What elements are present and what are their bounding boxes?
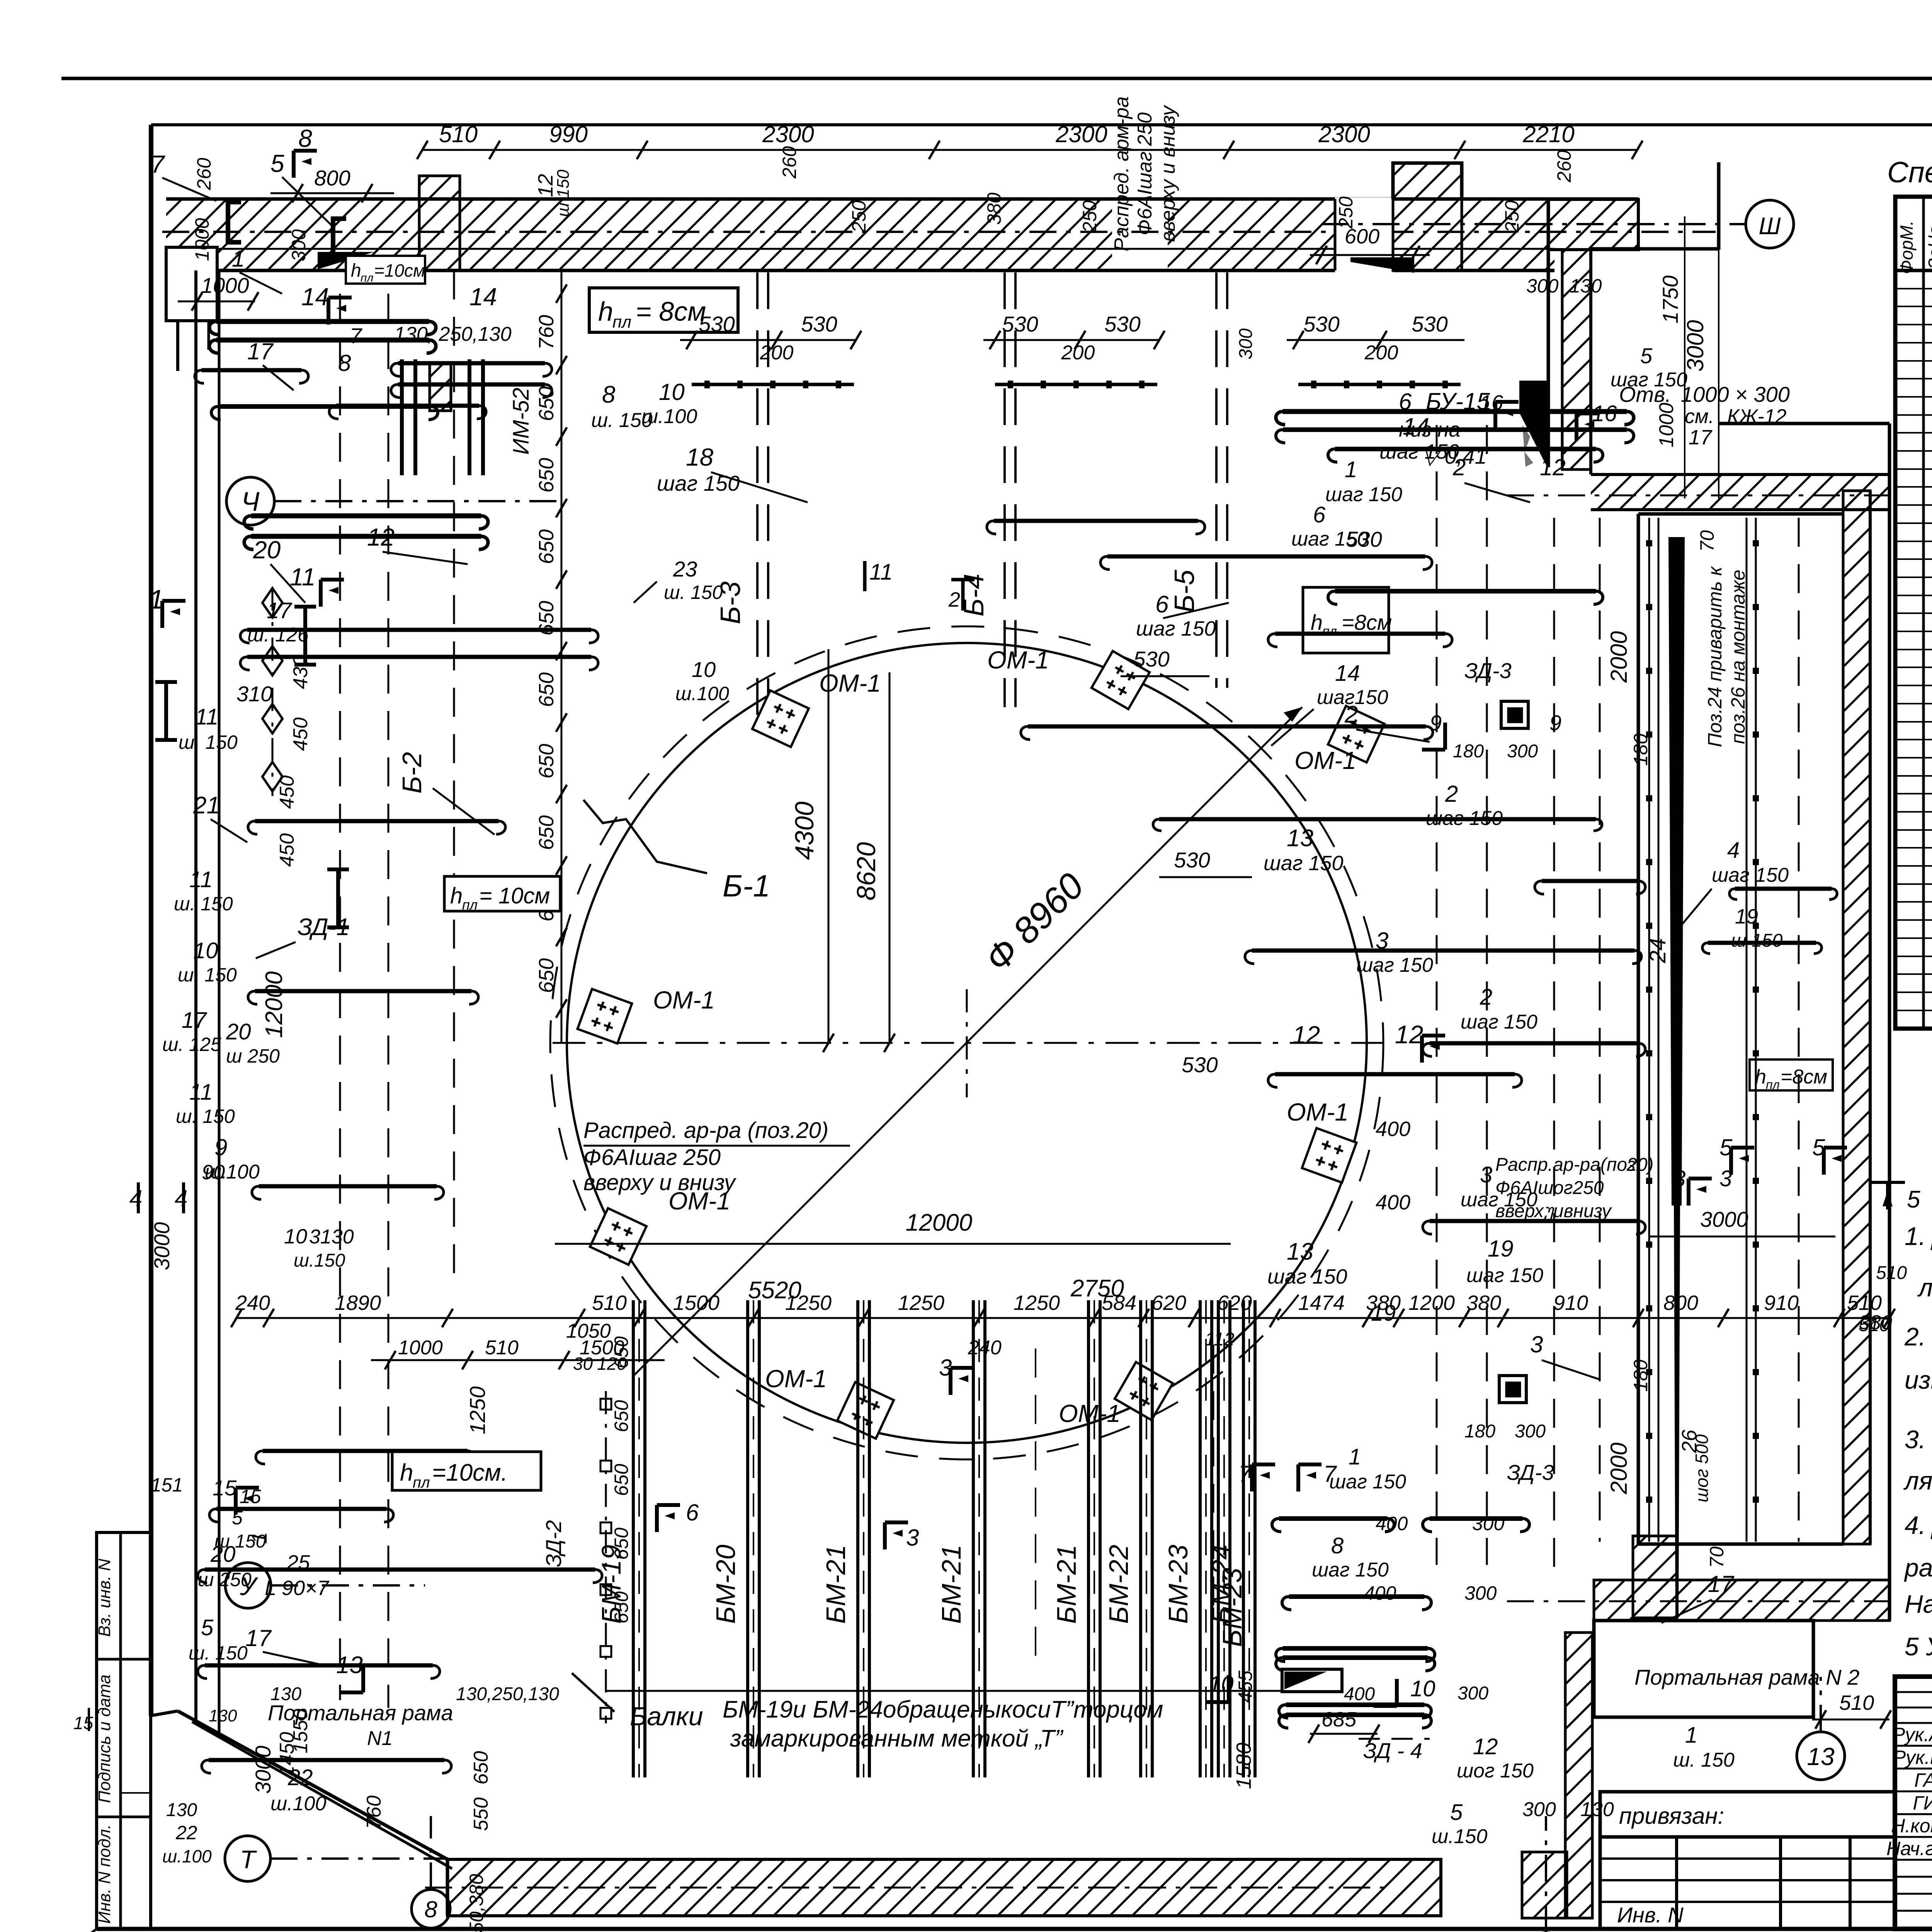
svg-text:1250: 1250 bbox=[1014, 1291, 1060, 1315]
svg-text:пл.: пл. bbox=[1322, 624, 1340, 639]
svg-text:ГАП: ГАП bbox=[1914, 1769, 1932, 1791]
svg-text:1000: 1000 bbox=[398, 1337, 443, 1359]
right zone outer thick lines bbox=[1638, 512, 1843, 516]
left wall lines bbox=[194, 270, 197, 1720]
svg-text:5: 5 bbox=[270, 150, 284, 177]
svg-text:1000: 1000 bbox=[1655, 403, 1678, 447]
svg-text:200: 200 bbox=[1061, 342, 1095, 364]
svg-text:650: 650 bbox=[535, 815, 558, 850]
svg-text:ИМ-52: ИМ-52 bbox=[509, 388, 534, 455]
svg-text:Распр.ар-ра(поз.: Распр.ар-ра(поз. bbox=[1495, 1155, 1641, 1175]
svg-text:760: 760 bbox=[535, 315, 558, 350]
svg-text:2000: 2000 bbox=[1606, 1442, 1632, 1494]
top right hatched block A bbox=[1548, 199, 1638, 250]
svg-text:650: 650 bbox=[611, 1400, 632, 1432]
svg-text:ш. 150: ш. 150 bbox=[178, 964, 237, 986]
svg-text:h: h bbox=[351, 260, 361, 281]
svg-text:650: 650 bbox=[470, 1751, 492, 1785]
svg-text:300: 300 bbox=[1522, 1798, 1556, 1821]
svg-text:1000: 1000 bbox=[191, 218, 213, 261]
svg-text:Ш: Ш bbox=[1759, 213, 1781, 240]
ZD-3 square bottom bbox=[1499, 1376, 1526, 1403]
svg-text:5: 5 bbox=[201, 1615, 214, 1640]
svg-text:300: 300 bbox=[1458, 1683, 1488, 1704]
svg-text:12: 12 bbox=[367, 523, 395, 551]
axis Ч circle bbox=[226, 477, 274, 525]
svg-text:530: 530 bbox=[1133, 647, 1169, 671]
svg-text:Спецификация: Спецификация bbox=[1887, 156, 1932, 189]
OM-1 pad bottom-right bbox=[1115, 1362, 1173, 1420]
svg-text:530: 530 bbox=[1346, 527, 1382, 551]
svg-text:6: 6 bbox=[686, 1500, 699, 1526]
svg-text:12000: 12000 bbox=[906, 1209, 972, 1236]
svg-text:3: 3 bbox=[906, 1525, 919, 1551]
svg-text:лям ЗД-2, расположенным в: лям ЗД-2, расположенным в балке Б-1. bbox=[1903, 1466, 1932, 1495]
svg-text:КЖ-12: КЖ-12 bbox=[1727, 405, 1787, 428]
svg-text:5: 5 bbox=[1640, 344, 1653, 368]
svg-text:10: 10 bbox=[193, 938, 218, 963]
svg-text:1250: 1250 bbox=[898, 1291, 944, 1315]
svg-text:Б-3: Б-3 bbox=[715, 582, 746, 624]
svg-text:17: 17 bbox=[1708, 1571, 1735, 1597]
svg-text:ГИП: ГИП bbox=[1913, 1792, 1932, 1814]
OM-1 pad lower-left bbox=[590, 1208, 646, 1265]
svg-text:300: 300 bbox=[1236, 328, 1256, 359]
svg-text:пл: пл bbox=[413, 1474, 430, 1491]
svg-text:11: 11 bbox=[189, 1080, 213, 1105]
top right hatched column B bbox=[1562, 250, 1591, 469]
OM-1 pad right bbox=[1302, 1128, 1357, 1183]
svg-text:25: 25 bbox=[286, 1551, 310, 1574]
svg-text:шаг 150: шаг 150 bbox=[1136, 617, 1216, 640]
svg-text:8: 8 bbox=[1331, 1533, 1344, 1558]
left inner dashed lines bbox=[339, 294, 341, 1700]
svg-text:13: 13 bbox=[1287, 1238, 1313, 1265]
svg-text:800: 800 bbox=[1663, 1291, 1698, 1315]
svg-text:ОМ-1: ОМ-1 bbox=[653, 986, 715, 1014]
svg-text:ЗоНа: ЗоНа bbox=[1925, 226, 1932, 269]
step block 3605 bbox=[1393, 163, 1462, 270]
hpl=10cm box bottom bbox=[392, 1452, 541, 1490]
svg-text:пл: пл bbox=[361, 272, 374, 284]
svg-text:910: 910 bbox=[1553, 1291, 1588, 1315]
svg-text:10: 10 bbox=[659, 379, 685, 405]
svg-text:180: 180 bbox=[1453, 741, 1484, 762]
svg-text:ш. 150: ш. 150 bbox=[176, 1105, 235, 1127]
svg-text:620: 620 bbox=[1217, 1291, 1252, 1315]
svg-text:9: 9 bbox=[214, 1134, 227, 1160]
bottom hatched strip right part bbox=[1594, 1580, 1889, 1621]
svg-text:70: 70 bbox=[1696, 530, 1718, 552]
I-beam mid bbox=[164, 682, 168, 740]
bottom right portal zone bbox=[1565, 1633, 1592, 1918]
svg-text:4: 4 bbox=[129, 1185, 142, 1211]
svg-text:=8см: =8см bbox=[1342, 610, 1392, 634]
svg-text:БМ-23: БМ-23 bbox=[1163, 1544, 1193, 1624]
black wedge in column bbox=[1519, 381, 1547, 466]
svg-text:5: 5 bbox=[1450, 1800, 1463, 1825]
svg-text:БМ-23: БМ-23 bbox=[1217, 1568, 1247, 1647]
svg-text:Инв. N: Инв. N bbox=[1617, 1903, 1684, 1927]
svg-text:18: 18 bbox=[686, 443, 714, 471]
sheet frame bottom line bbox=[97, 1927, 1932, 1931]
svg-text:17: 17 bbox=[182, 1008, 207, 1033]
black wedge plate right bbox=[1350, 257, 1414, 273]
svg-text:Распред. ар-ра (поз.20): Распред. ар-ра (поз.20) bbox=[583, 1118, 828, 1143]
svg-text:400: 400 bbox=[1344, 1684, 1375, 1704]
top band inner face line bbox=[166, 248, 1335, 250]
svg-text:3000: 3000 bbox=[251, 1746, 275, 1794]
svg-text:1474: 1474 bbox=[1298, 1291, 1345, 1315]
svg-text:685: 685 bbox=[1321, 1708, 1357, 1731]
step block over band at 1085 bbox=[419, 176, 460, 270]
svg-text:530: 530 bbox=[1412, 312, 1447, 336]
svg-text:22: 22 bbox=[175, 1822, 197, 1844]
650 dimension column bbox=[561, 270, 563, 1043]
bottom band hatched bbox=[447, 1859, 1441, 1916]
svg-text:ОМ-1: ОМ-1 bbox=[819, 669, 881, 697]
svg-text:15: 15 bbox=[240, 1486, 261, 1507]
OM-1 pad upper-right bbox=[1328, 706, 1384, 762]
door gap with 600 dim bbox=[1335, 197, 1393, 272]
svg-text:ЗД-3: ЗД-3 bbox=[1507, 1460, 1554, 1485]
circle diagonal diameter bbox=[634, 707, 1302, 1376]
black strip bbox=[1668, 537, 1685, 1206]
svg-text:ш.150: ш.150 bbox=[1432, 1825, 1487, 1848]
svg-text:Вз. инв. N: Вз. инв. N bbox=[95, 1559, 114, 1637]
diamond posts column 21 bbox=[262, 588, 282, 617]
svg-text:12: 12 bbox=[1293, 1021, 1320, 1049]
hpl=10cm box top bbox=[346, 256, 425, 284]
svg-text:ш 150: ш 150 bbox=[214, 1531, 266, 1552]
svg-text:Б-2: Б-2 bbox=[397, 752, 427, 794]
rebar bars top-left bbox=[216, 319, 429, 324]
dashed verticals center-bottom bbox=[1213, 1345, 1214, 1623]
svg-text:2300: 2300 bbox=[1318, 121, 1370, 147]
top-right bars bbox=[1283, 409, 1627, 414]
svg-text:7: 7 bbox=[350, 323, 362, 348]
svg-text:ш.100: ш.100 bbox=[641, 405, 697, 428]
svg-text:ЗД-1: ЗД-1 bbox=[298, 914, 350, 940]
svg-text:БМ-20: БМ-20 bbox=[711, 1544, 741, 1624]
svg-text:Н.контр.: Н.контр. bbox=[1891, 1815, 1932, 1837]
title block outer frame bbox=[1895, 1677, 1932, 1929]
svg-text:17: 17 bbox=[247, 338, 274, 364]
svg-text:15: 15 bbox=[213, 1476, 237, 1500]
OM-1 pad left bbox=[578, 989, 632, 1044]
svg-text:510: 510 bbox=[1839, 1691, 1874, 1714]
spec table row lines fine grid bbox=[1895, 288, 1932, 289]
svg-text:ш 250: ш 250 bbox=[198, 1569, 252, 1590]
svg-text:шаг 150: шаг 150 bbox=[1461, 1011, 1537, 1033]
svg-text:шаг 150: шаг 150 bbox=[1712, 864, 1789, 886]
svg-text:8: 8 bbox=[602, 381, 616, 408]
svg-text:шаг 150: шаг 150 bbox=[1312, 1559, 1389, 1581]
axis Т circle bbox=[225, 1836, 270, 1881]
long bars center-right bbox=[1028, 724, 1426, 729]
svg-text:1000 × 300: 1000 × 300 bbox=[1681, 382, 1790, 406]
svg-text:1250: 1250 bbox=[465, 1386, 490, 1435]
svg-text:3000: 3000 bbox=[1700, 1207, 1748, 1231]
circle vertical centerline short bbox=[966, 989, 968, 1097]
svg-text:ОМ-1: ОМ-1 bbox=[1294, 747, 1356, 774]
svg-text:151: 151 bbox=[151, 1474, 183, 1496]
svg-text:ш. 150: ш. 150 bbox=[1673, 1749, 1735, 1771]
svg-text:Б-5: Б-5 bbox=[1169, 570, 1200, 613]
svg-text:11: 11 bbox=[290, 563, 315, 591]
opening circle solid bbox=[567, 643, 1367, 1443]
left corner white block bbox=[166, 247, 217, 321]
svg-text:8: 8 bbox=[424, 1896, 437, 1922]
svg-text:14: 14 bbox=[301, 283, 329, 311]
svg-text:530: 530 bbox=[1303, 312, 1339, 336]
svg-text:3. Стальные балки приварить: 3. Стальные балки приварить к закладным … bbox=[1905, 1425, 1932, 1454]
bottom center bars bbox=[1279, 1516, 1387, 1521]
top right walls outline bbox=[1547, 199, 1550, 467]
svg-text:990: 990 bbox=[549, 121, 588, 147]
svg-text:10: 10 bbox=[284, 1225, 307, 1248]
svg-text:30: 30 bbox=[573, 1354, 593, 1374]
main bottom dim chain bbox=[236, 1317, 1889, 1319]
thin dim verticals right bbox=[1684, 216, 1685, 498]
svg-text:БМ-21: БМ-21 bbox=[821, 1544, 851, 1624]
bottom-left diagonal edge bbox=[151, 1711, 178, 1716]
svg-text:Ф6АIшаг 250: Ф6АIшаг 250 bbox=[583, 1145, 721, 1170]
svg-text:2: 2 bbox=[1445, 781, 1458, 807]
svg-text:шог 500: шог 500 bbox=[1692, 1434, 1712, 1502]
svg-text:листами КЖ-23 ÷ КЖ-28: листами КЖ-23 ÷ КЖ-28 bbox=[1917, 1273, 1932, 1302]
black wedge plate left bbox=[318, 252, 374, 269]
svg-text:100: 100 bbox=[226, 1161, 260, 1183]
bottom band of plan bbox=[446, 1859, 449, 1915]
svg-text:шаг 150: шаг 150 bbox=[1466, 1264, 1543, 1287]
svg-text:ОМ-1: ОМ-1 bbox=[765, 1365, 827, 1393]
svg-text:Б-1: Б-1 bbox=[723, 869, 770, 903]
svg-text:ш.150: ш.150 bbox=[294, 1250, 345, 1271]
svg-text:260: 260 bbox=[193, 158, 215, 190]
svg-text:7: 7 bbox=[151, 150, 165, 178]
svg-text:ш. 150: ш. 150 bbox=[179, 731, 238, 753]
svg-text:= 10см: = 10см bbox=[479, 883, 550, 908]
svg-text:450: 450 bbox=[276, 776, 298, 809]
svg-text:3: 3 bbox=[1719, 1166, 1732, 1191]
svg-text:650: 650 bbox=[611, 1464, 632, 1496]
axis 13 circle bbox=[1797, 1732, 1845, 1780]
svg-text:1500: 1500 bbox=[673, 1291, 719, 1315]
svg-text:510: 510 bbox=[485, 1337, 519, 1359]
svg-text:пл: пл bbox=[1766, 1078, 1780, 1092]
svg-text:130: 130 bbox=[270, 1684, 301, 1704]
svg-text:шаг 150: шаг 150 bbox=[1611, 369, 1687, 391]
svg-text:650: 650 bbox=[611, 1336, 632, 1369]
svg-text:1200: 1200 bbox=[1408, 1291, 1455, 1315]
small hatch pier bbox=[430, 362, 451, 411]
svg-text:ш 250: ш 250 bbox=[226, 1045, 280, 1067]
svg-text:455: 455 bbox=[1235, 1670, 1256, 1703]
svg-text:6: 6 bbox=[1155, 591, 1169, 618]
svg-text:N1: N1 bbox=[367, 1727, 393, 1750]
svg-text:4: 4 bbox=[1727, 838, 1740, 863]
svg-text:200: 200 bbox=[1364, 342, 1398, 364]
svg-text:На л. КЖ - 26: На л. КЖ - 26 bbox=[1905, 1590, 1932, 1618]
svg-text:70: 70 bbox=[1706, 1546, 1728, 1568]
svg-text:8: 8 bbox=[338, 350, 351, 376]
bottom-left corner diagonal bbox=[53, 1929, 97, 1932]
svg-text:1250: 1250 bbox=[785, 1291, 832, 1315]
svg-text:4. До укладки бетона к: 4. До укладки бетона к колонне МК-2 (пор… bbox=[1905, 1511, 1932, 1539]
svg-text:21: 21 bbox=[193, 792, 220, 819]
svg-text:Поз.24 приварить к: Поз.24 приварить к bbox=[1704, 566, 1726, 747]
svg-text:17: 17 bbox=[267, 598, 293, 623]
svg-text:ЗД-2: ЗД-2 bbox=[541, 1520, 566, 1567]
axis 8 circle bbox=[412, 1889, 450, 1928]
svg-text:400: 400 bbox=[1376, 1513, 1408, 1534]
svg-text:300: 300 bbox=[1507, 741, 1538, 762]
circle horizontal centerline bbox=[553, 1042, 1383, 1044]
svg-text:1. Данный чертеж рассматрив: 1. Данный чертеж рассматривать совместно… bbox=[1905, 1222, 1932, 1250]
svg-text:130, 250,130: 130, 250,130 bbox=[394, 323, 512, 345]
svg-text:650: 650 bbox=[535, 458, 558, 493]
svg-text:см.: см. bbox=[1685, 405, 1714, 428]
svg-text:1890: 1890 bbox=[335, 1291, 381, 1315]
I-beam symbol 20 bbox=[303, 607, 307, 665]
svg-text:Распред. арм-ра: Распред. арм-ра bbox=[1111, 96, 1133, 251]
rebar rows left mid bbox=[218, 404, 431, 409]
svg-text:вверху и внизу: вверху и внизу bbox=[1157, 105, 1179, 242]
svg-text:130: 130 bbox=[1580, 1798, 1614, 1821]
svg-text:200: 200 bbox=[760, 342, 794, 364]
svg-text:h: h bbox=[598, 296, 613, 327]
svg-text:15: 15 bbox=[73, 1713, 94, 1733]
thin line through beams bbox=[606, 1690, 1337, 1692]
axis У circle bbox=[225, 1563, 271, 1608]
svg-text:13: 13 bbox=[1807, 1743, 1835, 1770]
svg-text:10: 10 bbox=[692, 657, 716, 682]
svg-text:рама N1) приварить уголок: рама N1) приварить уголок L 90×7 (поз. 2… bbox=[1904, 1553, 1932, 1582]
svg-text:450: 450 bbox=[289, 718, 312, 751]
svg-text:h: h bbox=[400, 1459, 413, 1486]
hpl=8cm box bbox=[589, 288, 738, 332]
svg-text:400: 400 bbox=[1376, 1117, 1410, 1141]
svg-text:2300: 2300 bbox=[1055, 121, 1107, 147]
svg-text:22: 22 bbox=[287, 1765, 313, 1790]
svg-text:130: 130 bbox=[209, 1706, 237, 1725]
svg-text:530: 530 bbox=[1002, 312, 1038, 336]
svg-text:замаркированным меткой „Т”: замаркированным меткой „Т” bbox=[730, 1725, 1063, 1752]
svg-text:530: 530 bbox=[1182, 1053, 1218, 1077]
top band upper edge bbox=[166, 197, 1638, 201]
svg-text:1: 1 bbox=[232, 246, 245, 272]
svg-text:Балки: Балки bbox=[630, 1702, 703, 1731]
svg-text:650: 650 bbox=[535, 744, 558, 779]
svg-text:h: h bbox=[450, 883, 463, 908]
double hooks cluster bbox=[400, 359, 404, 475]
svg-text:530: 530 bbox=[1104, 312, 1140, 336]
svg-text:1000: 1000 bbox=[201, 273, 249, 298]
full-width inner line bbox=[151, 123, 1932, 126]
svg-text:550: 550 bbox=[470, 1798, 492, 1831]
svg-text:шог 150: шог 150 bbox=[1457, 1760, 1534, 1782]
svg-text:ш.100: ш.100 bbox=[675, 683, 729, 704]
svg-text:400: 400 bbox=[1364, 1582, 1396, 1604]
svg-text:250: 250 bbox=[848, 200, 870, 233]
svg-text:=8см: =8см bbox=[1781, 1066, 1827, 1088]
svg-text:4300: 4300 bbox=[790, 801, 819, 860]
svg-text:130: 130 bbox=[166, 1800, 197, 1820]
svg-text:240: 240 bbox=[235, 1291, 270, 1315]
svg-text:3: 3 bbox=[1530, 1332, 1543, 1357]
svg-text:ш 150: ш 150 bbox=[554, 169, 573, 217]
svg-text:ЗД - 4: ЗД - 4 bbox=[1363, 1738, 1422, 1763]
OM-1 pad upper-left bbox=[752, 690, 809, 747]
band below niche bbox=[1591, 474, 1889, 510]
svg-text:БМ-19и БМ-24обращеныкосиТ”торц: БМ-19и БМ-24обращеныкосиТ”торцом bbox=[723, 1696, 1163, 1723]
svg-text:ш. 150: ш. 150 bbox=[174, 893, 233, 915]
black wedge plate ZD-4 area bbox=[1282, 1669, 1342, 1692]
I-beam symbol 20 low bbox=[336, 869, 340, 927]
svg-text:h: h bbox=[1311, 610, 1323, 634]
svg-text:Подпись и дата: Подпись и дата bbox=[95, 1675, 114, 1803]
svg-text:250: 250 bbox=[1335, 196, 1357, 229]
svg-text:14: 14 bbox=[469, 283, 497, 311]
channel marks top-left bbox=[228, 202, 241, 242]
svg-text:800: 800 bbox=[314, 166, 350, 190]
svg-text:ОМ-1: ОМ-1 bbox=[1287, 1098, 1349, 1126]
axis Ч line bbox=[274, 500, 564, 502]
svg-text:1580: 1580 bbox=[1232, 1743, 1255, 1789]
svg-text:2000: 2000 bbox=[1606, 631, 1632, 683]
OM-1 pad bottom bbox=[837, 1382, 894, 1439]
svg-text:2300: 2300 bbox=[762, 121, 814, 147]
svg-text:530: 530 bbox=[1174, 848, 1210, 872]
svg-text:3000: 3000 bbox=[150, 1222, 174, 1270]
svg-text:11: 11 bbox=[195, 704, 218, 730]
privyazan box bbox=[1600, 1792, 1895, 1837]
svg-text:450: 450 bbox=[276, 833, 298, 867]
svg-text:БМ-21: БМ-21 bbox=[936, 1544, 966, 1624]
stud rows under 530 dims bbox=[692, 383, 854, 386]
svg-text:250: 250 bbox=[1079, 200, 1100, 233]
beam Б-4 dashed axis bbox=[1003, 272, 1006, 707]
svg-text:530: 530 bbox=[801, 312, 837, 336]
svg-text:584: 584 bbox=[1102, 1291, 1136, 1315]
spec table header bottom bbox=[1895, 269, 1932, 272]
axis Ш circle bbox=[1746, 200, 1794, 248]
svg-text:Рук.АБ-2: Рук.АБ-2 bbox=[1892, 1724, 1932, 1745]
svg-text:2210: 2210 bbox=[1522, 121, 1574, 147]
svg-text:17: 17 bbox=[245, 1625, 272, 1651]
ZD-2 squares column bbox=[605, 1391, 607, 1723]
svg-text:5 Уголок L50×5 (поз. 24) при: 5 Уголок L50×5 (поз. 24) приварить На мо… bbox=[1905, 1632, 1932, 1661]
svg-text:650: 650 bbox=[535, 958, 558, 993]
svg-text:20: 20 bbox=[226, 1019, 251, 1044]
svg-text:Инв. N подл.: Инв. N подл. bbox=[95, 1824, 114, 1923]
svg-text:10: 10 bbox=[1410, 1676, 1435, 1701]
hatch column below portal zone bbox=[1633, 1536, 1677, 1618]
svg-text:1: 1 bbox=[1685, 1723, 1697, 1748]
right wall hatched band bbox=[1843, 491, 1870, 1544]
svg-text:шаг 150: шаг 150 bbox=[1267, 1265, 1347, 1288]
svg-text:L 90×7: L 90×7 bbox=[265, 1577, 330, 1600]
left stamp column bbox=[97, 1532, 151, 1929]
svg-text:ш.100: ш.100 bbox=[270, 1793, 326, 1815]
svg-text:310: 310 bbox=[236, 682, 272, 706]
svg-text:изводить в соответствии с: изводить в соответствии с СНиП 3.03.01-8… bbox=[1905, 1366, 1932, 1394]
OM-1 pad top bbox=[1092, 651, 1150, 709]
svg-text:Ч: Ч bbox=[241, 486, 260, 517]
svg-text:12: 12 bbox=[1473, 1734, 1498, 1759]
svg-text:=10см.: =10см. bbox=[432, 1459, 508, 1486]
